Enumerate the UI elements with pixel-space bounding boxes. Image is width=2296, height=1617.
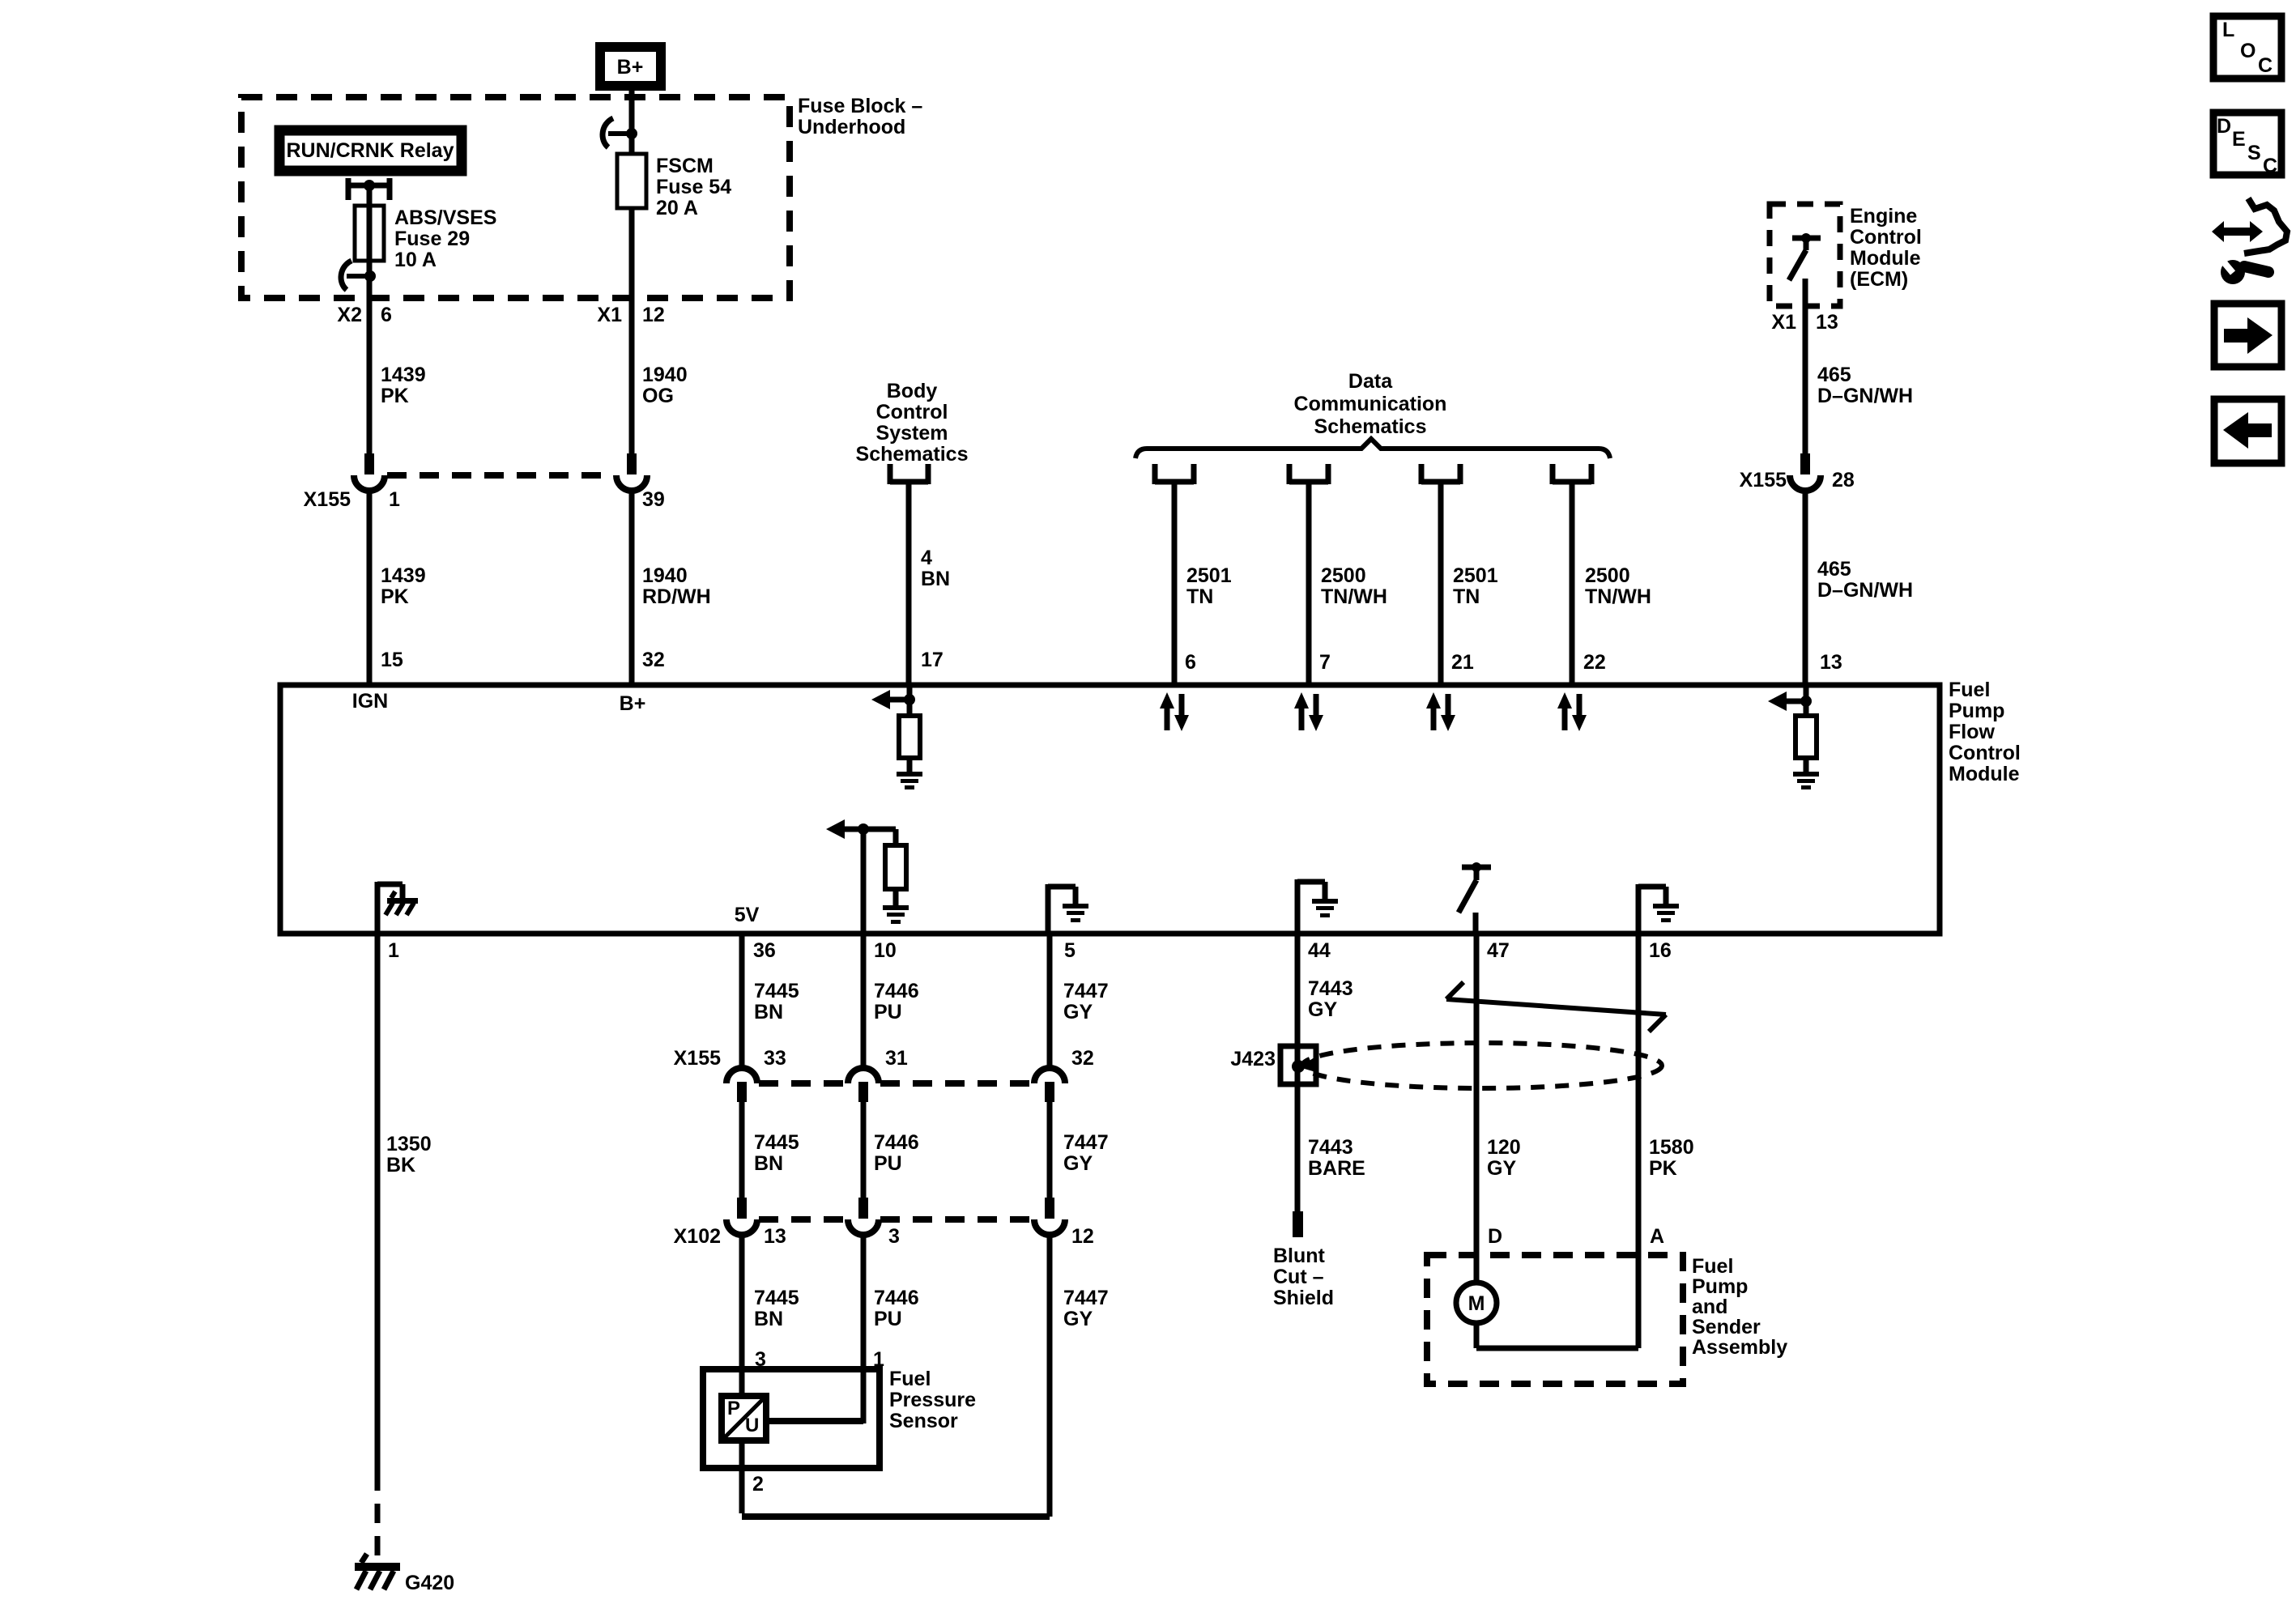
fuse block bus hook at F29 bottom xyxy=(341,261,376,290)
svg-text:Fuse 54: Fuse 54 xyxy=(656,176,731,198)
svg-text:47: 47 xyxy=(1487,939,1510,962)
module pin 5 number xyxy=(1064,939,1076,962)
fuel pressure sensor element P/U xyxy=(722,1369,766,1440)
svg-text:D–GN/WH: D–GN/WH xyxy=(1817,579,1913,602)
svg-text:A: A xyxy=(1650,1225,1664,1248)
svg-text:Shield: Shield xyxy=(1273,1287,1334,1309)
svg-text:D: D xyxy=(1488,1225,1502,1248)
svg-text:TN/WH: TN/WH xyxy=(1321,585,1387,608)
svg-text:Schematics: Schematics xyxy=(856,443,969,466)
svg-text:1: 1 xyxy=(389,488,400,511)
svg-text:4: 4 xyxy=(921,547,932,569)
module internal ground at pin 44 xyxy=(1297,879,1338,934)
svg-text:Fuse Block –: Fuse Block – xyxy=(798,95,922,117)
svg-text:17: 17 xyxy=(921,649,944,671)
module pin 1 number xyxy=(388,939,399,962)
fuse block label xyxy=(798,95,922,138)
svg-text:B+: B+ xyxy=(617,56,644,79)
wire 1350 BK module to G420 xyxy=(377,934,432,1567)
svg-text:GY: GY xyxy=(1063,1152,1093,1175)
svg-text:BN: BN xyxy=(921,568,950,590)
svg-text:X155: X155 xyxy=(674,1047,721,1070)
connector X155 mid labels xyxy=(674,1047,1094,1070)
ground G420 xyxy=(355,1554,454,1594)
wire 2501 TN b xyxy=(1453,564,1498,608)
wire 1940 RD/WH X155 to module xyxy=(632,491,711,685)
svg-text:O: O xyxy=(2240,40,2256,62)
svg-text:Engine: Engine xyxy=(1850,205,1917,228)
svg-text:X155: X155 xyxy=(1740,469,1787,491)
module pin 10 number xyxy=(874,939,897,962)
svg-text:Schematics: Schematics xyxy=(1314,415,1427,438)
svg-text:1: 1 xyxy=(388,939,399,962)
off-page connector data wire 4 xyxy=(1553,464,1591,685)
svg-text:G420: G420 xyxy=(405,1572,454,1594)
connector X155 pin 39 xyxy=(616,453,647,491)
svg-text:Communication: Communication xyxy=(1294,393,1447,415)
svg-text:22: 22 xyxy=(1583,651,1606,674)
shield pointer line xyxy=(1446,982,1666,1032)
svg-text:7447: 7447 xyxy=(1063,1287,1109,1309)
svg-text:2500: 2500 xyxy=(1585,564,1630,587)
svg-text:1580: 1580 xyxy=(1649,1136,1694,1159)
wire 2500 TN/WH a xyxy=(1321,564,1387,608)
svg-text:15: 15 xyxy=(381,649,403,671)
svg-text:33: 33 xyxy=(764,1047,786,1070)
module internal switch at pin 47 xyxy=(1459,862,1491,934)
svg-text:12: 12 xyxy=(1071,1225,1094,1248)
module pin 6 number xyxy=(1185,651,1196,674)
svg-text:2500: 2500 xyxy=(1321,564,1366,587)
sensor pin 2 wire xyxy=(742,1235,1050,1517)
svg-text:5V: 5V xyxy=(735,904,760,926)
wire 7443 GY module to J423 xyxy=(1297,934,1353,1046)
relay K RUN/CRNK Relay name box xyxy=(279,130,462,171)
svg-text:7446: 7446 xyxy=(874,1131,919,1154)
svg-text:Fuel: Fuel xyxy=(1949,679,1990,701)
wire 7445 BN column xyxy=(726,934,799,1369)
svg-text:2: 2 xyxy=(752,1473,764,1496)
svg-text:2501: 2501 xyxy=(1186,564,1232,587)
svg-text:(ECM): (ECM) xyxy=(1850,268,1908,291)
svg-text:RUN/CRNK Relay: RUN/CRNK Relay xyxy=(287,139,454,162)
fuel pump motor M xyxy=(1456,1283,1497,1323)
icon LOC box xyxy=(2213,16,2281,79)
module pin 44 number xyxy=(1308,939,1331,962)
svg-text:OG: OG xyxy=(642,385,674,407)
svg-text:Module: Module xyxy=(1949,763,2020,785)
off-page connector data wire 1 xyxy=(1155,464,1194,685)
module pin 47 number xyxy=(1487,939,1510,962)
svg-text:D: D xyxy=(2217,115,2231,138)
svg-text:Assembly: Assembly xyxy=(1692,1336,1787,1359)
svg-text:X1: X1 xyxy=(1771,311,1796,334)
Fuel Pump Flow Control Module box xyxy=(280,685,1940,934)
svg-text:Blunt: Blunt xyxy=(1273,1245,1326,1267)
module pin 13 number xyxy=(1820,651,1842,674)
svg-text:L: L xyxy=(2222,19,2234,41)
module internal chassis ground at pin 1 xyxy=(377,882,418,934)
svg-text:BARE: BARE xyxy=(1308,1157,1365,1180)
wire 7443 BARE to blunt cut xyxy=(1293,1084,1365,1237)
svg-text:BN: BN xyxy=(754,1308,783,1330)
wire 465 D-GN/WH ECM to X155 xyxy=(1805,306,1913,455)
svg-text:7447: 7447 xyxy=(1063,1131,1109,1154)
svg-text:7447: 7447 xyxy=(1063,980,1109,1002)
svg-text:Control: Control xyxy=(1850,226,1922,249)
svg-text:Fuse 29: Fuse 29 xyxy=(394,228,470,250)
svg-text:TN: TN xyxy=(1453,585,1480,608)
svg-text:X155: X155 xyxy=(304,488,351,511)
ECM internal switch xyxy=(1789,233,1821,306)
bus transceiver arrows pin 7 xyxy=(1294,692,1323,731)
off-page connector to BCM xyxy=(890,464,928,685)
relay contact terminal bracket xyxy=(348,178,390,206)
connector X2 pin 6 label xyxy=(337,304,392,326)
svg-text:X102: X102 xyxy=(674,1225,721,1248)
wire 7446 PU column xyxy=(848,934,919,1369)
svg-text:13: 13 xyxy=(1816,311,1838,334)
svg-text:32: 32 xyxy=(1071,1047,1094,1070)
svg-text:7: 7 xyxy=(1319,651,1331,674)
module pin 17 number xyxy=(921,649,944,671)
svg-text:Flow: Flow xyxy=(1949,721,1995,743)
svg-text:28: 28 xyxy=(1832,469,1855,491)
module pin 15 xyxy=(352,649,403,713)
connector X155 pin 28 xyxy=(1790,453,1821,491)
svg-text:M: M xyxy=(1468,1292,1485,1315)
svg-text:C: C xyxy=(2258,54,2273,77)
svg-text:6: 6 xyxy=(381,304,392,326)
svg-text:7445: 7445 xyxy=(754,1131,799,1154)
svg-text:B+: B+ xyxy=(620,692,646,715)
svg-text:PU: PU xyxy=(874,1152,902,1175)
svg-text:RD/WH: RD/WH xyxy=(642,585,711,608)
svg-text:16: 16 xyxy=(1649,939,1672,962)
svg-text:PK: PK xyxy=(381,585,409,608)
module internal sense divider at pin 10 xyxy=(826,819,909,934)
connector X155 row1 labels xyxy=(304,488,665,511)
module pin 21 number xyxy=(1451,651,1474,674)
svg-text:ABS/VSES: ABS/VSES xyxy=(394,206,496,229)
BCM schematic reference label xyxy=(856,380,969,466)
svg-text:IGN: IGN xyxy=(352,690,388,713)
data communication schematics label xyxy=(1294,370,1447,438)
svg-text:Sender: Sender xyxy=(1692,1316,1761,1338)
harness dashed link X155 row1 xyxy=(387,472,614,479)
connector X1 pin 12 label xyxy=(597,304,664,326)
svg-text:32: 32 xyxy=(642,649,665,671)
svg-text:7445: 7445 xyxy=(754,1287,799,1309)
svg-text:Body: Body xyxy=(887,380,938,402)
svg-text:Underhood: Underhood xyxy=(798,116,905,138)
power feed B+ terminal xyxy=(600,47,661,86)
module pin 32 xyxy=(620,649,665,715)
harness dashed links X155 mid row xyxy=(759,1080,1033,1087)
svg-text:J423: J423 xyxy=(1230,1048,1276,1070)
wire 120 GY module to pump xyxy=(1476,934,1521,1283)
svg-text:1940: 1940 xyxy=(642,564,688,587)
svg-text:C: C xyxy=(2263,155,2277,177)
svg-text:1439: 1439 xyxy=(381,364,426,386)
module pin 36 number xyxy=(753,939,776,962)
module pin 16 number xyxy=(1649,939,1672,962)
svg-text:1350: 1350 xyxy=(386,1133,432,1155)
connector X102 labels xyxy=(674,1225,1094,1248)
pump return wire xyxy=(1476,1323,1638,1348)
wire 1940 OG fuse block to X155 xyxy=(632,208,688,455)
svg-text:Sensor: Sensor xyxy=(889,1410,958,1432)
svg-text:Module: Module xyxy=(1850,247,1921,270)
fuse block bus hook at F54 top xyxy=(603,118,637,147)
svg-text:5: 5 xyxy=(1064,939,1076,962)
wire 7447 GY column xyxy=(1034,934,1109,1369)
fuse F29 ABS/VSES 10A xyxy=(355,185,496,276)
module internal pull-up at pin 13 xyxy=(1768,685,1819,789)
svg-text:10 A: 10 A xyxy=(394,249,437,271)
svg-text:7443: 7443 xyxy=(1308,977,1353,1000)
wire 2500 TN/WH b xyxy=(1585,564,1651,608)
connector X155 pin 1 xyxy=(354,453,385,491)
svg-text:System: System xyxy=(876,422,948,445)
svg-text:Data: Data xyxy=(1348,370,1393,393)
module 5V supply label xyxy=(735,904,760,926)
wire 1580 PK module to pump xyxy=(1638,934,1694,1348)
bus transceiver arrows pin 6 xyxy=(1160,692,1189,731)
module internal ground at pin 5 xyxy=(1048,884,1088,934)
fuel pump and sender dashed box xyxy=(1427,1255,1787,1384)
svg-text:BK: BK xyxy=(386,1154,415,1177)
svg-text:PU: PU xyxy=(874,1001,902,1023)
svg-text:31: 31 xyxy=(885,1047,908,1070)
off-page connector data wire 2 xyxy=(1289,464,1328,685)
svg-text:12: 12 xyxy=(642,304,665,326)
svg-text:P: P xyxy=(727,1398,740,1419)
ECM dashed box xyxy=(1770,204,1840,306)
svg-text:FSCM: FSCM xyxy=(656,155,714,177)
svg-text:Pressure: Pressure xyxy=(889,1389,976,1411)
icon forward arrow box xyxy=(2214,304,2281,367)
svg-text:X2: X2 xyxy=(337,304,362,326)
svg-text:13: 13 xyxy=(1820,651,1842,674)
svg-text:Cut –: Cut – xyxy=(1273,1266,1324,1288)
fuel pressure sensor pins xyxy=(755,1348,884,1371)
module name label xyxy=(1949,679,2021,785)
svg-text:7446: 7446 xyxy=(874,980,919,1002)
module internal pull-up at pin 17 xyxy=(871,685,922,789)
svg-text:Control: Control xyxy=(876,401,948,423)
svg-text:BN: BN xyxy=(754,1001,783,1023)
svg-text:Pump: Pump xyxy=(1692,1275,1748,1298)
icon adjust hand with wrench xyxy=(2212,198,2287,284)
svg-text:465: 465 xyxy=(1817,364,1851,386)
svg-text:GY: GY xyxy=(1487,1157,1516,1180)
wire 1439 PK fuse block to X155 xyxy=(369,276,426,455)
svg-text:6: 6 xyxy=(1185,651,1196,674)
svg-text:21: 21 xyxy=(1451,651,1474,674)
svg-text:20 A: 20 A xyxy=(656,197,698,219)
svg-text:13: 13 xyxy=(764,1225,786,1248)
svg-text:Pump: Pump xyxy=(1949,700,2004,722)
svg-text:E: E xyxy=(2232,128,2246,151)
svg-text:and: and xyxy=(1692,1296,1727,1318)
svg-text:39: 39 xyxy=(642,488,665,511)
wire 4 BN to module pin 17 xyxy=(921,547,950,590)
svg-text:Control: Control xyxy=(1949,742,2021,764)
wire B+ box to fuse F54 xyxy=(629,91,635,154)
svg-text:Fuel: Fuel xyxy=(889,1368,931,1390)
module pin 22 number xyxy=(1583,651,1606,674)
harness dashed links X102 row xyxy=(759,1216,1033,1223)
splice J423 xyxy=(1230,1046,1318,1084)
fuel pressure sensor box xyxy=(703,1368,976,1468)
fuse block underhood dashed box xyxy=(241,97,790,298)
svg-text:TN/WH: TN/WH xyxy=(1585,585,1651,608)
fuse F54 FSCM 20A xyxy=(617,154,731,219)
bus transceiver arrows pin 22 xyxy=(1557,692,1587,731)
svg-text:GY: GY xyxy=(1308,998,1337,1021)
svg-text:PK: PK xyxy=(1649,1157,1677,1180)
svg-text:S: S xyxy=(2247,142,2261,164)
svg-text:3: 3 xyxy=(888,1225,900,1248)
connector X1 pin 13 label xyxy=(1771,311,1838,334)
icon back arrow box xyxy=(2214,399,2281,463)
svg-text:D–GN/WH: D–GN/WH xyxy=(1817,385,1913,407)
svg-text:1439: 1439 xyxy=(381,564,426,587)
svg-text:1940: 1940 xyxy=(642,364,688,386)
wire 465 D-GN/WH X155 to module xyxy=(1805,491,1913,685)
svg-text:GY: GY xyxy=(1063,1308,1093,1330)
bus transceiver arrows pin 21 xyxy=(1426,692,1455,731)
svg-text:GY: GY xyxy=(1063,1001,1093,1023)
svg-text:BN: BN xyxy=(754,1152,783,1175)
wire 1439 PK X155 to module xyxy=(369,491,426,685)
svg-text:7446: 7446 xyxy=(874,1287,919,1309)
svg-text:465: 465 xyxy=(1817,558,1851,581)
svg-text:7445: 7445 xyxy=(754,980,799,1002)
off-page connector data wire 3 xyxy=(1421,464,1460,685)
svg-text:Fuel: Fuel xyxy=(1692,1255,1733,1278)
svg-text:2501: 2501 xyxy=(1453,564,1498,587)
svg-text:7443: 7443 xyxy=(1308,1136,1353,1159)
brace over data bus wires xyxy=(1135,439,1610,458)
blunt cut shield label xyxy=(1273,1245,1334,1309)
svg-text:44: 44 xyxy=(1308,939,1331,962)
svg-text:PU: PU xyxy=(874,1308,902,1330)
svg-text:TN: TN xyxy=(1186,585,1213,608)
wire 2501 TN a xyxy=(1186,564,1232,608)
svg-text:PK: PK xyxy=(381,385,409,407)
svg-text:10: 10 xyxy=(874,939,897,962)
module pin 7 number xyxy=(1319,651,1331,674)
svg-text:36: 36 xyxy=(753,939,776,962)
svg-text:X1: X1 xyxy=(597,304,622,326)
ECM label xyxy=(1850,205,1922,291)
svg-text:U: U xyxy=(745,1415,759,1436)
icon DESC box xyxy=(2213,113,2281,177)
shield dashed ellipse xyxy=(1302,1043,1662,1088)
svg-text:120: 120 xyxy=(1487,1136,1521,1159)
connector X155 pin 28 labels xyxy=(1740,469,1855,491)
sensor internal link pin 1 xyxy=(766,1369,863,1423)
module internal ground at pin 16 xyxy=(1638,884,1679,934)
